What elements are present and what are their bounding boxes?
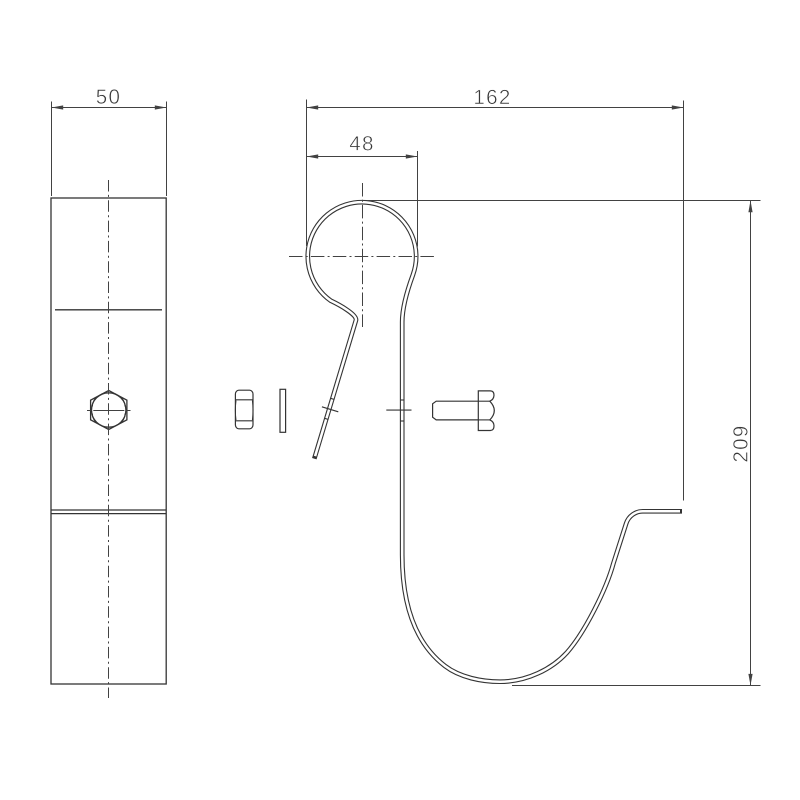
bolt head chamfer arc upper-left xyxy=(92,398,95,407)
hex nut right chamfer arc xyxy=(251,401,254,421)
right leg axis tick (long) xyxy=(386,409,411,411)
dim 50 left extension line xyxy=(51,102,53,197)
clip wire inner white fill xyxy=(308,202,680,682)
dim 162 left arrow xyxy=(307,105,319,109)
svg-text:209: 209 xyxy=(730,424,753,462)
dim 48 right arrow xyxy=(406,154,418,158)
left leg axis tick (long) xyxy=(322,407,338,412)
dim 50 dimension line xyxy=(52,107,167,109)
dim 48 dimension line xyxy=(307,156,418,158)
dim 162 dimension line xyxy=(307,107,684,109)
left leg hole tick upper xyxy=(330,398,334,399)
svg-text:50: 50 xyxy=(96,86,122,109)
dim 162 left extension line xyxy=(306,100,308,247)
hex nut left chamfer arc xyxy=(234,401,237,421)
bolt head chamfer arc upper-right xyxy=(122,398,125,407)
bolt head hexagon on plate xyxy=(91,391,127,430)
washer side view xyxy=(280,389,286,432)
plate vertical centerline xyxy=(108,180,110,698)
bolt head upper face line xyxy=(478,400,490,402)
bolt shank xyxy=(433,401,479,420)
right leg hole tick lower xyxy=(400,420,404,422)
bolt head chamfer arc lower-right xyxy=(122,414,125,423)
dim 50 right arrow xyxy=(155,105,167,109)
dim 209 top extension line xyxy=(367,200,761,202)
dim 209 top arrow xyxy=(748,201,752,213)
dim 209 dimension line xyxy=(750,201,752,686)
hex nut side view body xyxy=(235,390,253,429)
bolt head lower face line xyxy=(478,419,490,421)
hex nut upper face line xyxy=(235,399,253,401)
svg-text:48: 48 xyxy=(349,132,375,155)
plate outline (left side view) xyxy=(51,198,166,684)
clip loop vertical centerline xyxy=(362,183,364,327)
dim 48 right extension line xyxy=(417,151,419,247)
dim 48 left arrow xyxy=(307,154,319,158)
dim 209 bottom extension line xyxy=(512,685,761,687)
plate weld seam line 1 xyxy=(51,509,166,511)
dim 162 right extension line xyxy=(683,101,685,501)
clip wire outer stroke xyxy=(308,202,682,682)
dim 50 right extension line xyxy=(166,102,168,197)
clip loop horizontal centerline xyxy=(289,256,436,258)
right leg hole tick upper xyxy=(400,399,404,401)
hex nut lower face line xyxy=(235,420,253,422)
dim 162 right arrow xyxy=(672,105,684,109)
dim 209 bottom arrow xyxy=(748,674,752,686)
bolt head horizontal centerline xyxy=(87,410,131,412)
dim 50 left arrow xyxy=(52,105,64,109)
svg-text:162: 162 xyxy=(473,86,511,109)
bolt head side view xyxy=(478,391,494,431)
plate weld seam line 2 xyxy=(51,513,166,515)
bolt head chamfer arc lower-left xyxy=(92,414,95,423)
plate bend line (upper horizontal line) xyxy=(55,309,162,311)
bolt head inscribed circle xyxy=(92,393,126,427)
left leg hole tick lower xyxy=(324,418,328,419)
